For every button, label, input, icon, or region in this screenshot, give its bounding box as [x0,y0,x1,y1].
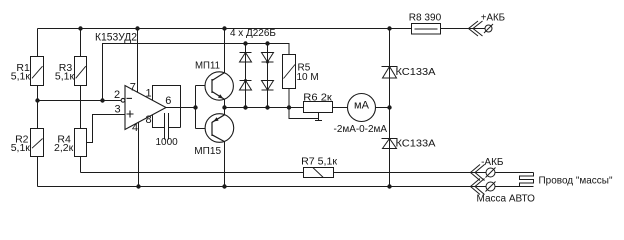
svg-text:Провод "массы": Провод "массы" [539,175,613,187]
svg-text:Масса АВТО: Масса АВТО [477,193,536,204]
svg-text:R8 390: R8 390 [409,11,442,23]
svg-text:7: 7 [130,81,136,93]
svg-text:5,1к: 5,1к [11,142,31,154]
svg-text:4: 4 [132,122,138,134]
svg-text:5,1к: 5,1к [11,71,31,83]
svg-text:+АКБ: +АКБ [481,13,506,24]
svg-text:К153УД2: К153УД2 [95,31,137,43]
svg-text:3: 3 [115,104,121,116]
svg-text:КС133А: КС133А [396,66,436,78]
svg-text:6: 6 [165,95,171,107]
svg-text:8: 8 [146,114,152,126]
svg-text:4 х Д226Б: 4 х Д226Б [230,28,276,39]
svg-text:МП15: МП15 [194,146,221,157]
svg-text:мА: мА [354,100,370,112]
svg-text:R7 5,1к: R7 5,1к [301,157,338,168]
svg-text:2,2к: 2,2к [54,142,74,154]
svg-text:1: 1 [146,88,152,100]
svg-text:-АКБ: -АКБ [481,157,504,168]
svg-text:1000: 1000 [156,137,179,148]
svg-text:5,1к: 5,1к [55,71,75,83]
svg-text:КС133А: КС133А [396,137,436,149]
svg-text:R6 2к: R6 2к [303,92,332,103]
svg-text:2: 2 [114,89,120,101]
svg-text:10 М: 10 М [297,72,319,83]
svg-text:МП11: МП11 [195,61,220,72]
svg-text:-2мА-0-2мА: -2мА-0-2мА [334,124,388,135]
